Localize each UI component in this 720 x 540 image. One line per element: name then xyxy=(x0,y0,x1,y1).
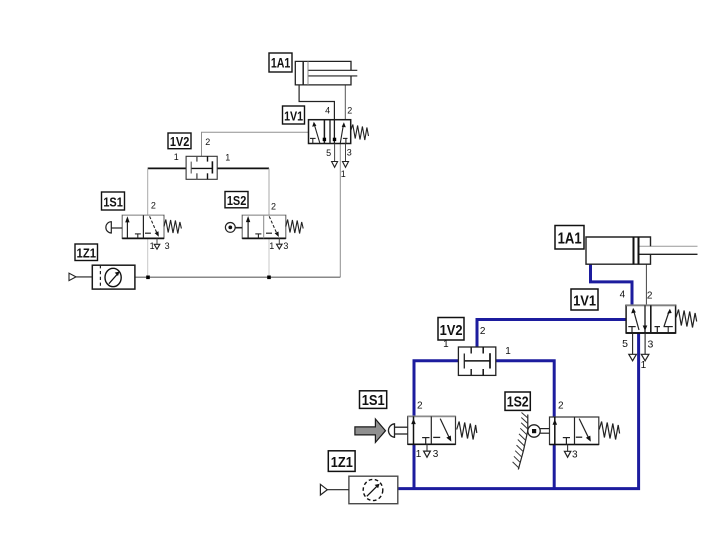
1S2-B port 3 stub and exhaust triangle xyxy=(564,445,570,458)
wire (blue) 1S1-B port 1 to supply bus xyxy=(413,444,416,488)
svg-text:1V1: 1V1 xyxy=(573,292,596,309)
svg-text:1S1: 1S1 xyxy=(362,392,385,409)
piston 1A1-A xyxy=(302,61,304,85)
label 1Z1 (circuit B) xyxy=(328,451,355,472)
gauge circle 1Z1-A xyxy=(105,268,121,286)
1S2-A left chamber: flow arrow up xyxy=(246,216,250,238)
wire 1S2-A port 1 to supply bus xyxy=(268,238,270,277)
valve 1S2-B body (3/2 roller, actuated) xyxy=(550,417,599,445)
svg-text:1V1: 1V1 xyxy=(284,108,303,123)
svg-text:1: 1 xyxy=(416,449,422,460)
1S2-A roller actuator xyxy=(225,223,242,233)
1V1-A port 3 exhaust line and silencer triangle xyxy=(343,144,349,168)
1S2-B port number 3 xyxy=(572,449,578,460)
svg-text:1V2: 1V2 xyxy=(170,134,190,149)
label 1V2 (circuit B) xyxy=(438,318,464,341)
svg-text:1: 1 xyxy=(150,241,155,251)
svg-text:1Z1: 1Z1 xyxy=(331,454,353,471)
1S2-A port number 2 xyxy=(271,201,276,211)
1V1-B port 5 exhaust line and silencer triangle xyxy=(629,333,637,361)
1V2-B port number 2 xyxy=(480,326,486,337)
1S2-A port number 1 xyxy=(269,241,274,251)
1S1-B port 3 stub and exhaust triangle xyxy=(424,444,431,457)
valve 1V1-A body (5/2) xyxy=(309,120,351,144)
1V1-B port number 1 xyxy=(641,360,647,371)
svg-text:1S2: 1S2 xyxy=(227,193,247,208)
cylinder 1A1-A body xyxy=(295,61,357,85)
svg-text:4: 4 xyxy=(325,105,330,115)
compressed air source triangle 1Z1-B xyxy=(320,484,349,495)
1V2-A port number 1 right xyxy=(225,152,230,162)
svg-text:2: 2 xyxy=(347,105,352,115)
1S1-B pushbutton actuator (pressed) xyxy=(388,424,407,438)
1S2-B port number 2 xyxy=(558,401,564,412)
valve 1S2-A body (3/2 roller) xyxy=(242,215,286,238)
svg-text:2: 2 xyxy=(558,401,564,412)
air supply 1Z1-A body xyxy=(92,265,135,289)
1S1-B right chamber: bar mark xyxy=(433,436,440,438)
label 1S1 (circuit A) xyxy=(102,192,125,210)
svg-text:3: 3 xyxy=(647,339,653,351)
1V1-B left chamber: diagonal 1-4 arrow up xyxy=(631,308,639,330)
1V1-B right chamber: bottom bar xyxy=(664,327,673,333)
valve 1S1-A body (3/2 pushbutton) xyxy=(122,215,164,238)
wire pilot 1V2-A port 2 to 1V1-A left pilot xyxy=(202,132,309,156)
valve 1V1-B body (5/2) xyxy=(626,305,676,333)
junction node on bus A below 1S2 xyxy=(267,276,271,280)
1V2-B port number 1 right xyxy=(505,346,511,357)
wire 1S1-A port 1 to supply bus xyxy=(147,238,149,277)
1V1-A port number 4 xyxy=(325,105,330,115)
wire 1A1-A right port to 1V1-A port 2 xyxy=(344,85,346,120)
1S1-A right chamber: bar mark xyxy=(145,232,151,234)
1S2-A return spring xyxy=(286,220,303,234)
1S1-B port number 3 xyxy=(433,449,439,460)
wire 1V1-A port 1 down to supply bus xyxy=(339,144,341,278)
1S1-B return spring xyxy=(457,422,477,440)
label 1V2 (circuit A) xyxy=(168,133,191,149)
1S1-A left chamber: flow arrow up xyxy=(125,216,129,238)
svg-text:3: 3 xyxy=(433,449,439,460)
1V1-B return spring xyxy=(676,310,697,328)
wire (blue) 1V2-B port 1 right to 1S2-B port 2 xyxy=(496,361,554,417)
1V1-B port number 4 xyxy=(620,290,626,301)
1S1-B left chamber: blocked port T xyxy=(422,438,429,445)
label 1A1 (circuit A) xyxy=(269,53,292,72)
1S2-B right chamber: diagonal arrow xyxy=(579,419,591,442)
1S2-B roller actuator xyxy=(528,425,550,437)
label 1S1 (circuit B) xyxy=(360,391,387,409)
svg-text:1: 1 xyxy=(505,346,511,357)
1S2-A left chamber: blocked port T xyxy=(255,234,261,239)
1V1-B right chamber: small blocked T xyxy=(655,327,661,333)
1S2-A port number 3 xyxy=(283,241,288,251)
svg-text:1S1: 1S1 xyxy=(103,194,123,209)
wire 1V2-A right to 1S2-A port 2 xyxy=(268,168,270,215)
1V1-B port 3 exhaust line and silencer triangle xyxy=(641,333,649,361)
valve 1V2-A two-pressure body xyxy=(186,156,217,179)
wire (blue) 1A1-B left port to 1V1-B port 4 xyxy=(591,264,633,305)
svg-text:1: 1 xyxy=(443,339,449,350)
1S1-A left chamber: blocked port T xyxy=(135,234,141,239)
1V1-A left chamber: blocked port T xyxy=(310,138,316,143)
compressor circle 1Z1-B (dashed) xyxy=(363,479,383,500)
trip wall with hatching at 1S2-B xyxy=(513,413,528,470)
label 1V1 (circuit B) xyxy=(571,289,598,310)
svg-text:2: 2 xyxy=(205,137,210,147)
1S1-B left chamber: open passage 1-2 arrow up xyxy=(411,416,416,444)
1V1-B left chamber: straight passage 2-3 arrow down xyxy=(643,305,648,333)
1V1-B right chamber: diagonal arrow up xyxy=(664,309,672,327)
svg-text:1Z1: 1Z1 xyxy=(77,246,97,261)
1V1-B left chamber: blocked port 5 T xyxy=(628,327,635,333)
1V1-A left chamber: vertical passage with junction dot xyxy=(323,120,326,144)
label 1V1 (circuit A) xyxy=(283,106,305,124)
wire (blue) 1S2-B port 1 to supply bus xyxy=(553,445,556,489)
svg-text:4: 4 xyxy=(620,290,626,301)
1V1-B port number 3 xyxy=(647,339,653,351)
1V1-A port number 5 xyxy=(326,148,331,158)
1S1-B port number 1 xyxy=(416,449,422,460)
1S1-A right chamber: diagonal 2-3 dashed arrow xyxy=(150,216,159,237)
svg-text:2: 2 xyxy=(151,201,156,211)
1V2-B port number 1 left xyxy=(443,339,449,350)
1V2-A port number 1 left xyxy=(174,152,179,162)
1V1-A return spring xyxy=(351,125,369,141)
cylinder 1A1-B body xyxy=(586,237,698,264)
1S1-A port 3 stub and exhaust triangle xyxy=(154,238,160,249)
1V1-A right chamber: blocked port 3 T xyxy=(343,138,348,143)
wire 1V2-A left to 1S1-A port 2 xyxy=(147,168,149,215)
1S2-B right chamber: bar mark xyxy=(576,436,582,438)
label 1S2 (circuit B) xyxy=(505,392,530,411)
svg-text:1S2: 1S2 xyxy=(507,394,529,411)
1V1-A left chamber: diagonal arrow up xyxy=(312,122,320,143)
1V2-A port number 2 xyxy=(205,137,210,147)
svg-text:1: 1 xyxy=(174,152,179,162)
1S2-A right chamber: bar mark xyxy=(266,232,272,234)
svg-text:2: 2 xyxy=(480,326,486,337)
svg-text:1: 1 xyxy=(225,152,230,162)
1S2-A right chamber: diagonal 2-3 dashed arrow xyxy=(269,216,279,237)
svg-text:2: 2 xyxy=(271,201,276,211)
svg-text:1: 1 xyxy=(341,169,346,179)
wire 1A1-B right port to 1V1-B port 2 xyxy=(645,264,647,305)
1S2-B return spring xyxy=(599,422,619,440)
valve 1S1-B body (3/2 pushbutton, actuated) xyxy=(408,416,456,444)
1S1-A port number 3 xyxy=(165,241,170,251)
wire supply bus A from 1Z1 to 1V1 port-1 riser xyxy=(135,276,340,278)
1V1-A port number 1 xyxy=(341,169,346,179)
piston 1A1-B (extended) xyxy=(633,237,635,264)
label 1S2 (circuit A) xyxy=(225,192,248,208)
1V1-A port number 2 xyxy=(347,105,352,115)
air supply 1Z1-B body xyxy=(349,476,398,504)
manual actuation arrow (big gray) at 1S1-B xyxy=(355,419,386,442)
label 1Z1 (circuit A) xyxy=(75,244,98,261)
1V1-A right chamber: diagonal arrow 1-2 xyxy=(340,122,346,143)
label 1A1 (circuit B) xyxy=(555,226,584,250)
wire 1V2-A left stub xyxy=(148,167,186,169)
wire 1V2-A right stub xyxy=(217,167,269,169)
1V1-A port 5 exhaust line and silencer triangle xyxy=(332,144,338,168)
valve 1V2-B two-pressure body xyxy=(458,347,495,375)
svg-text:2: 2 xyxy=(417,400,423,411)
1V1-A right chamber: vertical passage 4-5 with junction dot xyxy=(333,120,336,144)
1S1-B port number 2 xyxy=(417,400,423,411)
1S1-A port number 2 xyxy=(151,201,156,211)
1S1-A port number 1 xyxy=(150,241,155,251)
svg-text:1A1: 1A1 xyxy=(271,56,291,71)
svg-text:3: 3 xyxy=(347,147,352,157)
1S1-B right chamber: diagonal arrow xyxy=(440,419,451,442)
compressed air source triangle 1Z1-A xyxy=(69,273,92,280)
wire (blue) pilot 1V2-B port 2 to 1V1-B left pilot xyxy=(477,320,626,348)
svg-text:1A1: 1A1 xyxy=(558,230,582,247)
svg-text:5: 5 xyxy=(326,148,331,158)
1V1-A port number 3 xyxy=(347,147,352,157)
svg-text:5: 5 xyxy=(622,338,628,350)
svg-text:3: 3 xyxy=(283,241,288,251)
1S1-A pushbutton actuator xyxy=(106,222,122,233)
wire (blue) 1V2-B port 1 left to 1S1-B port 2 xyxy=(414,361,458,417)
svg-text:2: 2 xyxy=(647,291,653,302)
wire 1A1-A left port to 1V1-A port 4 xyxy=(299,85,334,120)
1V1-B port number 5 xyxy=(622,338,628,350)
1S1-A return spring xyxy=(164,220,181,234)
1S2-A port 3 stub and exhaust triangle xyxy=(277,238,283,249)
svg-text:1: 1 xyxy=(641,360,647,371)
1S2-B left chamber: open passage 1-2 arrow up xyxy=(553,417,558,445)
svg-text:3: 3 xyxy=(165,241,170,251)
junction node on bus A below 1S1 xyxy=(146,276,150,280)
wire (blue) supply bus B from 1Z1 to 1V1 port 1 xyxy=(398,333,639,489)
1S2-B left chamber: blocked port T xyxy=(563,438,570,445)
1V1-B port number 2 xyxy=(647,291,653,302)
svg-text:3: 3 xyxy=(572,449,578,460)
svg-text:1: 1 xyxy=(269,241,274,251)
svg-text:1V2: 1V2 xyxy=(440,322,463,339)
